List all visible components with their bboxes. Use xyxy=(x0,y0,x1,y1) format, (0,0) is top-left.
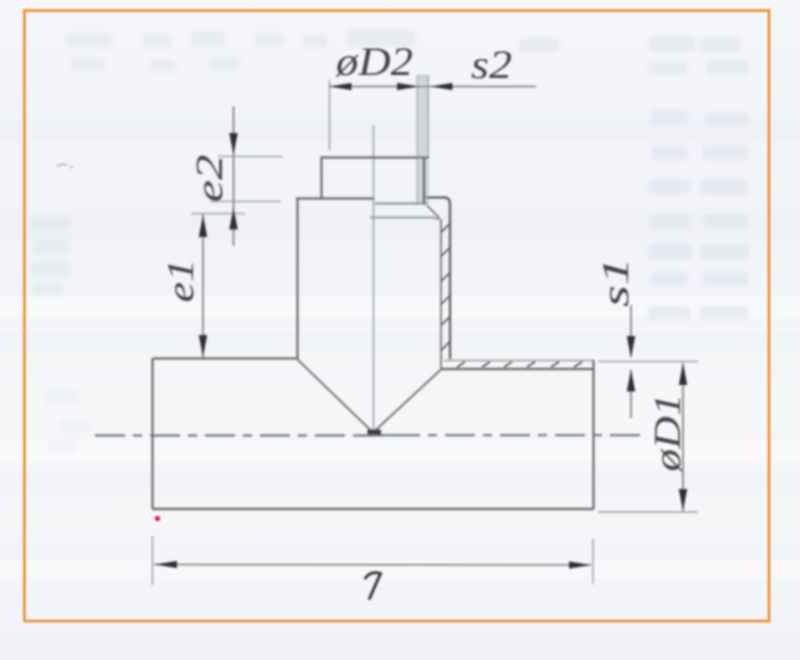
svg-text:øD1: øD1 xyxy=(647,394,689,473)
svg-text:e1: e1 xyxy=(160,259,202,303)
svg-text:øD2: øD2 xyxy=(335,39,413,84)
svg-text:s2: s2 xyxy=(471,42,512,87)
svg-text:e2: e2 xyxy=(189,155,231,203)
svg-text:s1: s1 xyxy=(595,257,637,307)
